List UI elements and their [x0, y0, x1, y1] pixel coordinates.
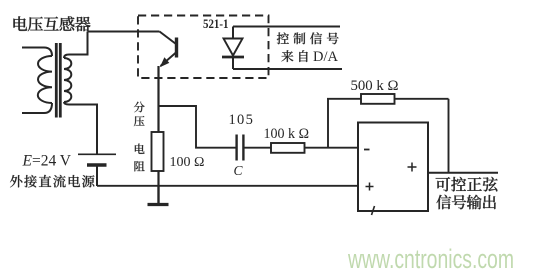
svg-text:105: 105	[229, 112, 255, 128]
LED D1 cathode bar	[222, 56, 244, 59]
wire feedback top right	[395, 98, 449, 100]
label 外接直流电源 (external DC supply)	[10, 175, 94, 188]
resistor R3 500k body	[361, 94, 395, 104]
transformer T1 secondary top lead wire	[64, 32, 88, 59]
transformer T1 primary top lead wire	[22, 48, 52, 57]
ground stub	[157, 186, 159, 204]
svg-text:E=24 V: E=24 V	[22, 152, 72, 169]
wire capacitor to resistor R2	[244, 147, 271, 149]
wire op-amp output	[428, 172, 498, 174]
wire feedback top left	[327, 98, 361, 100]
svg-text:D/A: D/A	[313, 49, 339, 65]
op-amp U2 output polarity mark	[408, 163, 417, 172]
svg-text:500 k Ω: 500 k Ω	[351, 77, 399, 94]
wire control signal top	[233, 26, 340, 28]
LED D1 triangle	[224, 39, 243, 56]
svg-text:C: C	[234, 163, 244, 178]
wire ground rail	[97, 185, 358, 187]
wire feedback right vertical to output	[448, 99, 450, 173]
svg-text:521-1: 521-1	[203, 16, 229, 31]
label 电压互感器 (voltage transformer)	[13, 16, 90, 31]
LED D1 cathode lead	[232, 57, 234, 69]
label 来自	[281, 50, 307, 62]
transformer T1 secondary winding	[64, 58, 71, 102]
op-amp U2 bottom stub	[372, 206, 375, 215]
label 电阻	[134, 144, 144, 172]
wire battery negative to rail	[96, 165, 98, 186]
transformer T1 primary bottom lead wire	[22, 103, 52, 113]
ground bar	[148, 203, 169, 206]
svg-text:100 Ω: 100 Ω	[170, 155, 205, 170]
op-amp U2 non-inverting input mark	[366, 183, 374, 191]
battery E1 positive plate	[78, 153, 116, 155]
op-amp U2 inverting input mark	[364, 149, 370, 151]
battery E1 negative plate	[87, 163, 107, 166]
phototransistor Q1 emitter diagonal with arrow	[161, 53, 177, 67]
wire resistor R1 to ground rail	[157, 171, 159, 186]
wire resistor R2 to op-amp inverting input	[305, 147, 359, 149]
label 分压电阻 (divider resistor)	[134, 102, 145, 127]
label 控制信号	[277, 32, 339, 44]
label 可控正弦 (controllable sine)	[436, 177, 498, 192]
wire emitter to divider resistor	[157, 66, 159, 132]
wire transformer to phototransistor collector	[88, 31, 160, 33]
LED D1 anode lead	[232, 27, 234, 39]
transformer T1 secondary bottom lead wire	[64, 102, 97, 154]
wire control signal bottom	[233, 68, 342, 70]
capacitor C 105 left plate	[235, 135, 237, 161]
transformer T1 core	[55, 43, 58, 118]
phototransistor Q1 collector diagonal	[160, 32, 177, 45]
resistor R2 100k body	[271, 143, 305, 153]
wire feedback left vertical	[327, 99, 329, 148]
svg-text:100 k Ω: 100 k Ω	[264, 125, 310, 142]
optocoupler U1 package outline (dashed box)	[138, 16, 269, 79]
transformer T1 primary winding	[38, 56, 52, 103]
svg-text:www.cntronics.com: www.cntronics.com	[347, 244, 514, 274]
wire emitter node to capacitor branch	[159, 106, 236, 148]
label 信号输出 (signal output)	[436, 195, 496, 210]
op-amp U2 body	[358, 123, 428, 212]
resistor R1 100ohm body	[152, 132, 164, 171]
capacitor C 105 right plate	[242, 135, 244, 161]
phototransistor Q1 base bar	[175, 38, 178, 58]
